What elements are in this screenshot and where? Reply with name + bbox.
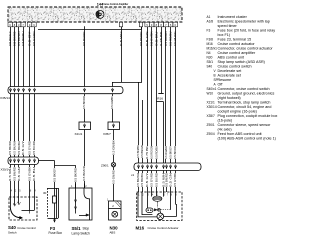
svg-text:0.5 BK/BU: 0.5 BK/BU	[140, 173, 144, 187]
svg-text:Decelerate set: Decelerate set	[218, 69, 242, 73]
svg-text:Feed from ABS control unit: Feed from ABS control unit	[218, 132, 262, 136]
svg-text:0.5 BN/GN: 0.5 BN/GN	[140, 145, 144, 158]
svg-text:S40: S40	[207, 65, 213, 69]
svg-text:0.5 BK/WH: 0.5 BK/WH	[136, 173, 140, 187]
svg-text:M16: M16	[136, 225, 145, 230]
svg-text:0.5 GN/BK: 0.5 GN/BK	[110, 96, 114, 109]
svg-text:0.5 GY/BK: 0.5 GY/BK	[173, 173, 177, 187]
svg-text:Fuse box (20 fold, in fuse and: Fuse box (20 fold, in fuse and relay	[218, 29, 276, 33]
svg-text:S5/1: S5/1	[207, 60, 214, 64]
svg-text:Z90/1: Z90/1	[101, 164, 109, 168]
svg-text:A1/8: A1/8	[207, 20, 214, 24]
svg-text:R16: R16	[157, 97, 163, 101]
svg-text:(right footwell): (right footwell)	[218, 96, 241, 100]
svg-text:Electronic speedometer with la: Electronic speedometer with lap	[218, 20, 270, 24]
svg-text:S40: S40	[8, 225, 16, 230]
svg-text:0.5 BK/WH: 0.5 BK/WH	[13, 141, 17, 155]
svg-text:(100) ABS-ASR control unit (no: (100) ABS-ASR control unit (note 1)	[218, 137, 276, 141]
svg-text:0.5 GN/RD: 0.5 GN/RD	[112, 170, 116, 184]
svg-text:0.5 GN: 0.5 GN	[169, 173, 173, 187]
svg-text:W10: W10	[207, 92, 214, 96]
svg-text:Stop lamp switch (ASD ASR): Stop lamp switch (ASD ASR)	[218, 60, 265, 64]
svg-text:Lamp Switch: Lamp Switch	[72, 231, 90, 235]
svg-text:0.5 GY: 0.5 GY	[145, 173, 149, 187]
svg-text:0.5 BK/RD: 0.5 BK/RD	[82, 96, 86, 109]
svg-text:Connector, circuit 54, engine: Connector, circuit 54, engine and	[218, 105, 272, 109]
svg-text:Fuse 23, terminal 15: Fuse 23, terminal 15	[218, 38, 252, 42]
svg-text:Instrument cluster: Instrument cluster	[218, 15, 248, 19]
svg-text:Resume: Resume	[218, 78, 232, 82]
svg-text:X30/14: X30/14	[207, 105, 217, 109]
svg-text:0.5 BK/RD: 0.5 BK/RD	[82, 166, 86, 181]
svg-text:0.5 BK/RD: 0.5 BK/RD	[173, 146, 177, 159]
svg-text:0.5 BU: 0.5 BU	[32, 167, 36, 181]
svg-text:F3: F3	[50, 226, 56, 231]
svg-text:Connector sleeve, speed sensor: Connector sleeve, speed sensor	[218, 123, 272, 127]
svg-text:(16-pole): (16-pole)	[218, 119, 233, 123]
svg-text:N30: N30	[207, 56, 213, 60]
svg-text:0.5 GN/BK: 0.5 GN/BK	[112, 140, 116, 155]
svg-text:0.5 WH: 0.5 WH	[119, 31, 123, 46]
svg-text:S5/1: S5/1	[72, 226, 82, 231]
svg-text:0.5 BU/RD: 0.5 BU/RD	[154, 173, 158, 187]
svg-text:0.5 BN/RD: 0.5 BN/RD	[165, 173, 169, 187]
svg-text:Cruise Control Amplifier: Cruise Control Amplifier	[102, 2, 129, 6]
svg-text:0.5 GY: 0.5 GY	[21, 141, 25, 155]
svg-text:0.5 BU/RD: 0.5 BU/RD	[32, 141, 36, 155]
svg-text:Cruise control amplifier: Cruise control amplifier	[218, 51, 256, 55]
svg-text:0.5 GN: 0.5 GN	[17, 167, 21, 181]
svg-text:0.5 GY/BK: 0.5 GY/BK	[28, 167, 32, 181]
svg-text:0.5 BK/GY: 0.5 BK/GY	[53, 168, 57, 182]
svg-text:0.5 BK/RD: 0.5 BK/RD	[74, 168, 78, 182]
svg-text:0.5 BK/BU: 0.5 BK/BU	[17, 141, 21, 155]
svg-text:F3: F3	[207, 29, 211, 33]
svg-text:0.5 GY/RD: 0.5 GY/RD	[32, 31, 36, 46]
svg-text:Cruise control switch: Cruise control switch	[218, 65, 252, 69]
svg-text:Z90/1: Z90/1	[207, 123, 215, 127]
svg-text:Stop: Stop	[83, 226, 90, 230]
svg-text:0.5 BK/RD: 0.5 BK/RD	[8, 141, 12, 155]
svg-text:Plug connection, cockpit modul: Plug connection, cockpit module box	[218, 114, 278, 118]
svg-text:X35/7: X35/7	[103, 132, 111, 136]
svg-text:0.5 BK/GY: 0.5 BK/GY	[169, 146, 173, 159]
svg-text:N4: N4	[207, 51, 211, 55]
svg-text:B: B	[214, 74, 216, 78]
svg-text:S40/x1: S40/x1	[207, 87, 217, 91]
svg-text:cockpit engine (16-pole): cockpit engine (16-pole)	[218, 110, 257, 114]
svg-text:0.5 GY/RD: 0.5 GY/RD	[150, 173, 154, 187]
svg-text:Fuse Box: Fuse Box	[49, 231, 63, 235]
svg-text:M16/x1: M16/x1	[207, 47, 218, 51]
svg-text:Terminal block, stop lamp swit: Terminal block, stop lamp switch	[218, 101, 271, 105]
svg-text:Accelerate set: Accelerate set	[218, 74, 241, 78]
svg-text:0.5 RD/BU: 0.5 RD/BU	[154, 146, 158, 159]
svg-text:0.5 RD/GN: 0.5 RD/GN	[150, 146, 154, 159]
svg-text:0.5 WH: 0.5 WH	[8, 167, 12, 181]
svg-text:0.75 BK: 0.75 BK	[145, 146, 149, 159]
svg-text:A1: A1	[207, 15, 211, 19]
svg-text:0.5 BN/RD: 0.5 BN/RD	[13, 167, 17, 181]
svg-text:ABS control unit: ABS control unit	[218, 56, 244, 60]
svg-text:Ground, output ground, electro: Ground, output ground, electronics	[218, 92, 275, 96]
svg-text:Cruise Control Actuator: Cruise Control Actuator	[148, 226, 179, 230]
svg-text:0.5 BN/RD: 0.5 BN/RD	[139, 31, 143, 46]
svg-text:ABS: ABS	[110, 230, 116, 234]
svg-text:X21/1: X21/1	[75, 132, 83, 136]
svg-text:0.5 BU/RD: 0.5 BU/RD	[82, 31, 86, 46]
svg-text:Switch: Switch	[8, 231, 17, 235]
svg-text:0.5 GY/RD: 0.5 GY/RD	[28, 141, 32, 155]
svg-text:(4x axle): (4x axle)	[218, 128, 232, 132]
svg-text:Z90/4: Z90/4	[207, 132, 215, 136]
svg-text:Cruise Control: Cruise Control	[17, 226, 36, 230]
svg-text:X35/7: X35/7	[207, 114, 216, 118]
svg-text:X21/1: X21/1	[207, 101, 216, 105]
svg-text:F3/8: F3/8	[207, 38, 214, 42]
svg-text:Cruise control actuator: Cruise control actuator	[218, 42, 256, 46]
svg-text:M16: M16	[207, 42, 213, 46]
svg-text:0.5 WH/RD: 0.5 WH/RD	[164, 146, 168, 159]
svg-text:30: 30	[43, 191, 47, 195]
svg-text:Connector, cruise control swit: Connector, cruise control switch	[218, 87, 270, 91]
svg-text:X35/14: X35/14	[0, 96, 10, 100]
svg-text:speed timer: speed timer	[218, 24, 238, 28]
svg-text:0.5 BN/BK: 0.5 BN/BK	[136, 145, 140, 158]
svg-text:x1: x1	[131, 173, 135, 177]
svg-text:box F1): box F1)	[218, 33, 231, 37]
svg-text:Connector, cruise control actu: Connector, cruise control actuator	[218, 47, 274, 51]
svg-text:0.75 BK: 0.75 BK	[159, 31, 163, 46]
